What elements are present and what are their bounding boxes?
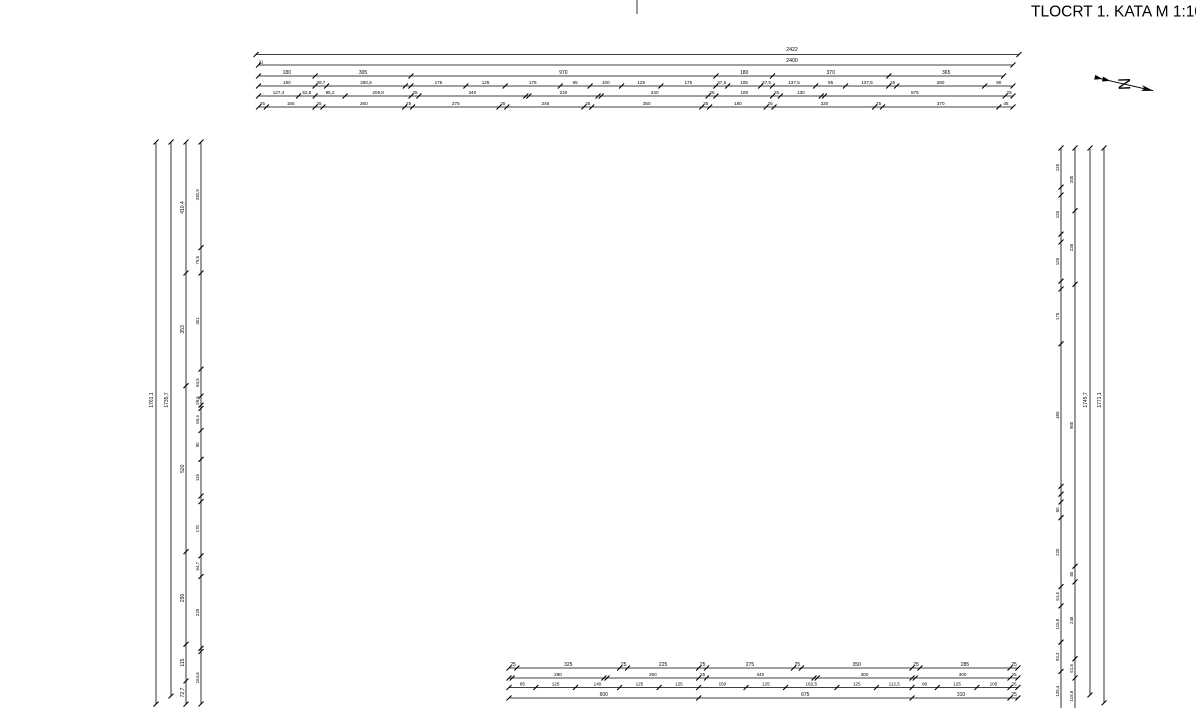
svg-text:125: 125: [1055, 257, 1060, 265]
svg-text:64,7: 64,7: [195, 561, 200, 570]
north arrow: [1093, 69, 1155, 99]
svg-text:25: 25: [913, 662, 919, 668]
svg-text:25: 25: [1011, 682, 1017, 687]
svg-text:275: 275: [452, 101, 460, 106]
svg-text:79,5: 79,5: [195, 255, 200, 264]
svg-text:95,2: 95,2: [326, 90, 335, 95]
svg-text:260: 260: [360, 101, 368, 106]
svg-text:305: 305: [359, 70, 368, 76]
svg-text:520: 520: [180, 464, 186, 473]
svg-text:125: 125: [953, 682, 961, 687]
svg-text:175: 175: [684, 80, 692, 85]
svg-text:301: 301: [195, 317, 200, 325]
svg-text:85: 85: [520, 682, 526, 687]
svg-text:TLOCRT 1. KATA M 1:100: TLOCRT 1. KATA M 1:100: [1031, 4, 1196, 21]
svg-text:25: 25: [1011, 672, 1017, 677]
svg-text:155: 155: [287, 101, 295, 106]
svg-text:50: 50: [1069, 571, 1074, 576]
svg-text:25: 25: [412, 90, 418, 95]
svg-text:340: 340: [651, 90, 659, 95]
svg-text:25: 25: [585, 101, 591, 106]
svg-text:125: 125: [762, 682, 770, 687]
svg-text:61,6: 61,6: [1069, 663, 1074, 672]
svg-text:21: 21: [259, 60, 264, 65]
svg-text:290: 290: [649, 672, 657, 677]
svg-text:220: 220: [1055, 548, 1060, 556]
svg-text:245: 245: [1069, 616, 1074, 624]
svg-text:80: 80: [922, 682, 928, 687]
svg-text:140: 140: [594, 682, 602, 687]
svg-text:25: 25: [260, 101, 266, 106]
svg-text:25: 25: [316, 101, 322, 106]
svg-text:675: 675: [801, 692, 810, 698]
svg-text:180: 180: [283, 70, 292, 76]
svg-text:105: 105: [740, 80, 748, 85]
svg-text:180: 180: [740, 70, 749, 76]
svg-text:25: 25: [876, 101, 882, 106]
svg-text:45: 45: [1003, 101, 1009, 106]
svg-text:330,9: 330,9: [195, 189, 200, 201]
svg-text:250,6: 250,6: [360, 80, 372, 85]
svg-text:25: 25: [1007, 90, 1013, 95]
svg-text:115: 115: [180, 658, 186, 666]
svg-text:25: 25: [768, 101, 774, 106]
svg-text:125: 125: [1055, 210, 1060, 218]
svg-text:280: 280: [937, 80, 945, 85]
svg-text:320: 320: [821, 101, 829, 106]
svg-text:170: 170: [195, 524, 200, 532]
svg-text:370: 370: [827, 70, 836, 76]
svg-text:93,3: 93,3: [1055, 652, 1060, 661]
top dimension chains: [256, 54, 1019, 56]
top border tick: [636, 0, 638, 14]
svg-text:115: 115: [195, 474, 200, 482]
svg-text:1745,7: 1745,7: [1083, 392, 1089, 408]
svg-text:245: 245: [542, 101, 550, 106]
svg-text:25: 25: [795, 662, 801, 668]
svg-text:25: 25: [700, 672, 706, 677]
svg-text:600: 600: [600, 692, 609, 698]
svg-text:137,5: 137,5: [861, 80, 873, 85]
svg-text:353: 353: [180, 325, 186, 334]
svg-text:1735,7: 1735,7: [164, 392, 170, 408]
svg-text:50: 50: [1055, 507, 1060, 512]
svg-text:100: 100: [602, 80, 610, 85]
svg-text:2422: 2422: [786, 47, 798, 53]
svg-text:125: 125: [675, 682, 683, 687]
svg-text:180: 180: [740, 90, 748, 95]
svg-text:900: 900: [1069, 421, 1074, 429]
svg-text:N: N: [1114, 78, 1133, 91]
svg-text:137,5: 137,5: [788, 80, 800, 85]
svg-text:220: 220: [560, 90, 568, 95]
svg-text:175: 175: [435, 80, 443, 85]
svg-text:112,5: 112,5: [889, 682, 901, 687]
svg-text:25: 25: [500, 101, 506, 106]
svg-text:125: 125: [853, 682, 861, 687]
svg-text:290: 290: [180, 594, 186, 603]
svg-text:2400: 2400: [786, 58, 798, 64]
svg-text:285: 285: [961, 662, 970, 668]
svg-text:175: 175: [529, 80, 537, 85]
svg-text:125: 125: [552, 682, 560, 687]
svg-text:125: 125: [637, 80, 645, 85]
svg-text:61,6: 61,6: [1055, 591, 1060, 600]
svg-text:235: 235: [1069, 243, 1074, 251]
svg-text:175: 175: [1055, 312, 1060, 320]
svg-text:275: 275: [746, 662, 755, 668]
svg-text:300: 300: [861, 672, 869, 677]
bottom dimension chains: [509, 667, 1018, 669]
svg-text:25: 25: [621, 662, 627, 668]
svg-text:52,8: 52,8: [302, 90, 311, 95]
svg-text:72,7: 72,7: [180, 687, 186, 697]
svg-text:225: 225: [195, 608, 200, 616]
svg-text:455: 455: [1055, 411, 1060, 419]
svg-text:37,5: 37,5: [762, 80, 771, 85]
svg-text:1771,1: 1771,1: [1097, 392, 1103, 408]
svg-text:200: 200: [1069, 175, 1074, 183]
svg-text:300: 300: [959, 672, 967, 677]
svg-text:370: 370: [937, 101, 945, 106]
svg-text:90: 90: [996, 80, 1002, 85]
svg-text:25: 25: [709, 90, 715, 95]
svg-text:162,5: 162,5: [806, 682, 818, 687]
svg-text:25: 25: [1011, 692, 1017, 698]
svg-text:127,4: 127,4: [273, 90, 285, 95]
svg-text:95: 95: [828, 80, 834, 85]
svg-text:25: 25: [774, 90, 780, 95]
svg-text:25: 25: [510, 662, 516, 668]
svg-text:95: 95: [573, 80, 579, 85]
right dimension chains: [1060, 148, 1062, 708]
svg-text:180: 180: [734, 101, 742, 106]
svg-text:209,8: 209,8: [372, 90, 384, 95]
svg-text:90: 90: [195, 442, 200, 447]
svg-text:125: 125: [636, 682, 644, 687]
svg-text:28,5: 28,5: [195, 396, 200, 405]
svg-text:290: 290: [554, 672, 562, 677]
svg-text:340: 340: [756, 672, 764, 677]
svg-text:350: 350: [643, 101, 651, 106]
svg-text:125: 125: [1055, 163, 1060, 171]
svg-text:225: 225: [659, 662, 668, 668]
svg-text:164,5: 164,5: [195, 672, 200, 684]
svg-text:410,4: 410,4: [180, 201, 186, 214]
svg-text:105: 105: [990, 682, 998, 687]
svg-text:970: 970: [559, 70, 568, 76]
svg-text:25: 25: [700, 662, 706, 668]
svg-text:25: 25: [1011, 662, 1017, 668]
svg-text:180: 180: [283, 80, 291, 85]
svg-text:125,4: 125,4: [1055, 685, 1060, 697]
svg-text:350: 350: [853, 662, 862, 668]
svg-text:1761,1: 1761,1: [149, 392, 155, 408]
left dimension chains: [155, 142, 157, 704]
svg-text:25: 25: [890, 80, 896, 85]
svg-text:69,4: 69,4: [195, 415, 200, 424]
svg-text:150: 150: [719, 682, 727, 687]
svg-text:130: 130: [797, 90, 805, 95]
svg-text:115,8: 115,8: [1069, 690, 1074, 701]
svg-text:340: 340: [468, 90, 476, 95]
svg-text:84,5: 84,5: [195, 378, 200, 387]
svg-text:36,7: 36,7: [316, 80, 325, 85]
svg-text:575: 575: [911, 90, 919, 95]
svg-text:365: 365: [942, 70, 951, 76]
svg-text:115,8: 115,8: [1055, 618, 1060, 629]
svg-text:37,5: 37,5: [717, 80, 726, 85]
svg-text:25: 25: [406, 101, 412, 106]
svg-text:125: 125: [482, 80, 490, 85]
svg-text:325: 325: [564, 662, 573, 668]
svg-text:310: 310: [957, 692, 966, 698]
svg-text:25: 25: [703, 101, 709, 106]
